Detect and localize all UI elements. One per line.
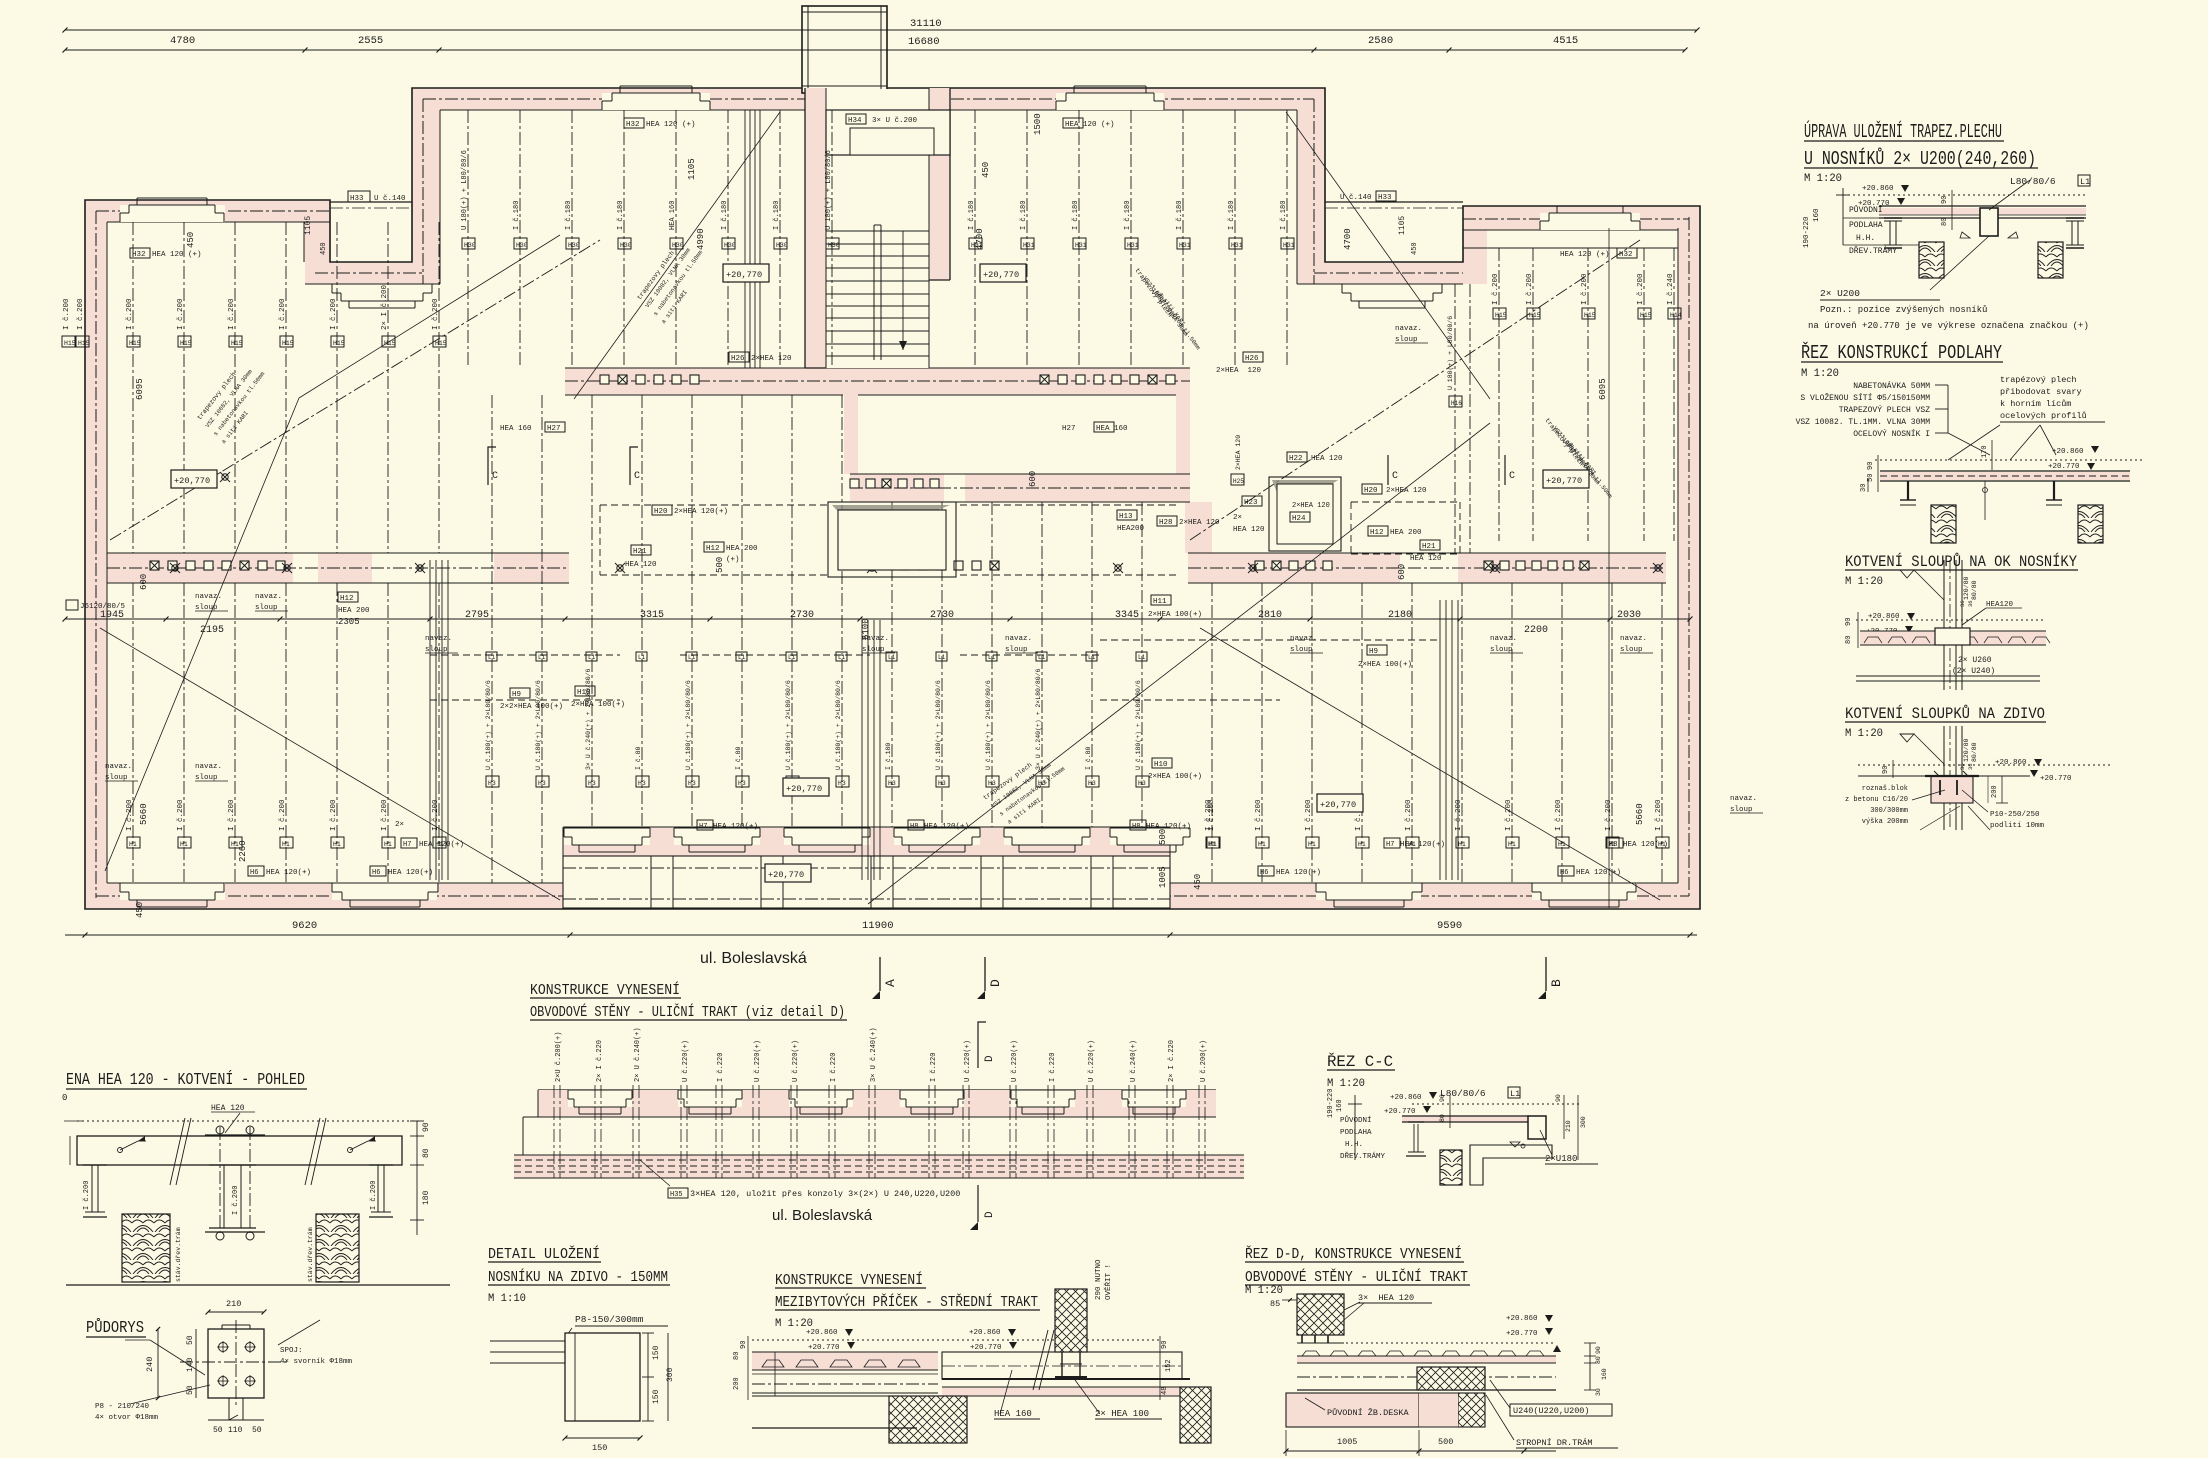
svg-text:ŘEZ C-C: ŘEZ C-C [1327, 1052, 1393, 1071]
svg-text:H6: H6 [372, 869, 380, 877]
svg-text:300/300mm: 300/300mm [1870, 807, 1908, 815]
window sills bottom [120, 828, 1637, 907]
svg-text:H31: H31 [1231, 242, 1243, 249]
svg-text:H15: H15 [1640, 312, 1652, 319]
svg-text:450: 450 [320, 242, 328, 255]
svg-text:90: 90 [1882, 766, 1890, 774]
svg-text:+20,770: +20,770 [786, 784, 822, 794]
svg-text:U240(U220,U200): U240(U220,U200) [1513, 1406, 1590, 1416]
svg-text:H33: H33 [1378, 194, 1392, 202]
svg-text:90: 90 [1845, 618, 1853, 626]
svg-text:H1: H1 [129, 841, 137, 848]
svg-text:HEA 120(+): HEA 120(+) [419, 841, 464, 849]
svg-text:80: 80 [1595, 1356, 1602, 1364]
svg-text:HEA 160: HEA 160 [669, 201, 677, 230]
diagonal reference lines [100, 112, 1660, 904]
svg-text:90: 90 [1161, 1341, 1169, 1349]
svg-text:H31: H31 [1023, 242, 1035, 249]
svg-text:2×HEA 120: 2×HEA 120 [1235, 435, 1242, 470]
svg-text:180: 180 [422, 1190, 431, 1205]
svg-text:HEA 120(+): HEA 120(+) [1623, 841, 1668, 849]
svg-text:L1: L1 [1138, 654, 1146, 661]
svg-text:2555: 2555 [358, 35, 383, 47]
svg-text:Pozn.: pozice zvýšených nosník: Pozn.: pozice zvýšených nosníků [1820, 305, 1987, 315]
svg-text:2×: 2× [395, 821, 404, 829]
svg-text:U č.220(+): U č.220(+) [1011, 1040, 1019, 1082]
svg-text:+20.860: +20.860 [2052, 448, 2084, 456]
svg-text:H15: H15 [64, 340, 76, 347]
detail 1 drawing [1803, 175, 2090, 331]
svg-text:I č.180: I č.180 [1228, 201, 1236, 230]
svg-text:90: 90 [1595, 1346, 1602, 1354]
joist lines left wing upper room [133, 222, 439, 553]
svg-text:H15: H15 [333, 340, 345, 347]
svg-text:H31: H31 [1179, 242, 1191, 249]
svg-text:HEA 120(+): HEA 120(+) [924, 823, 969, 831]
svg-text:2730: 2730 [930, 610, 954, 621]
svg-text:I č.200: I č.200 [1505, 799, 1513, 831]
svg-text:+20.860: +20.860 [969, 1329, 1001, 1337]
svg-text:C: C [634, 471, 640, 482]
REZ D-D title [1245, 1245, 1470, 1297]
svg-text:50: 50 [252, 1426, 262, 1435]
joist lines central-left room [468, 110, 832, 368]
svg-text:I č.180: I č.180 [968, 201, 976, 230]
svg-text:500: 500 [1158, 829, 1168, 845]
svg-text:(+): (+) [726, 556, 740, 564]
svg-text:9620: 9620 [292, 920, 317, 932]
svg-text:H30: H30 [464, 242, 476, 249]
bottom dimension line [65, 920, 1697, 938]
svg-text:L80/80/6: L80/80/6 [2010, 176, 2056, 187]
svg-text:STROPNÍ DR.TRÁM: STROPNÍ DR.TRÁM [1516, 1437, 1593, 1448]
svg-text:H30: H30 [516, 242, 528, 249]
svg-text:J6120/80/5: J6120/80/5 [80, 603, 126, 611]
svg-text:1105: 1105 [304, 216, 313, 235]
detail: beam elevation [64, 1104, 420, 1165]
svg-text:200: 200 [1991, 785, 1999, 798]
svg-text:+20.770: +20.770 [1384, 1108, 1416, 1116]
svg-text:3× U č.240(+) + 2×L80/80/6: 3× U č.240(+) + 2×L80/80/6 [1035, 668, 1042, 770]
svg-text:H1: H1 [1508, 841, 1516, 848]
svg-text:80: 80 [1439, 1114, 1446, 1122]
svg-text:navaz.: navaz. [425, 635, 452, 643]
joist labels left wing lower [126, 799, 446, 848]
svg-text:2×HEA 120: 2×HEA 120 [1386, 487, 1427, 495]
svg-text:H11: H11 [1153, 598, 1167, 606]
REZ D-D drawing [1270, 1293, 1618, 1456]
svg-text:H12: H12 [1370, 529, 1384, 537]
svg-text:HEA 160: HEA 160 [500, 425, 532, 433]
svg-text:80: 80 [1941, 218, 1949, 226]
H24 right room box [1269, 477, 1341, 551]
svg-text:H3: H3 [888, 780, 896, 787]
svg-text:2×HEA 120: 2×HEA 120 [751, 355, 792, 363]
svg-text:U č.180(+) + 2×L80/80/6: U č.180(+) + 2×L80/80/6 [935, 680, 942, 770]
svg-text:ocelových profilů: ocelových profilů [2000, 411, 2087, 421]
svg-text:H25: H25 [1233, 478, 1244, 485]
svg-text:D: D [984, 1211, 996, 1218]
right dims of beam detail [410, 1121, 431, 1235]
svg-text:I č.180: I č.180 [1072, 201, 1080, 230]
svg-text:4990: 4990 [696, 228, 706, 250]
svg-text:navaz.: navaz. [255, 593, 282, 601]
svg-text:ul. Boleslavská: ul. Boleslavská [772, 1207, 873, 1224]
svg-text:VSZ 10082. TL.1MM. VLNA 30MM: VSZ 10082. TL.1MM. VLNA 30MM [1796, 418, 1931, 427]
svg-text:L1: L1 [888, 654, 896, 661]
svg-text:110: 110 [228, 1426, 243, 1435]
svg-text:KOTVENÍ SLOUPKŮ NA ZDIVO: KOTVENÍ SLOUPKŮ NA ZDIVO [1845, 704, 2045, 723]
svg-text:HEA 200: HEA 200 [1390, 529, 1422, 537]
svg-text:PŮVODNÍ: PŮVODNÍ [1849, 205, 1883, 215]
svg-text:H21: H21 [1422, 543, 1436, 551]
svg-text:C: C [492, 471, 498, 482]
svg-text:H8: H8 [1132, 823, 1140, 831]
svg-text:H15: H15 [435, 340, 447, 347]
svg-text:+20.770: +20.770 [808, 1344, 840, 1352]
svg-text:2×U č.200(+): 2×U č.200(+) [555, 1032, 563, 1082]
REZ C-C drawing [1327, 1087, 1598, 1185]
svg-text:ENA HEA 120 - KOTVENÍ - POHLED: ENA HEA 120 - KOTVENÍ - POHLED [66, 1070, 305, 1090]
svg-text:3× HEA 120: 3× HEA 120 [1358, 1293, 1414, 1303]
svg-text:16680: 16680 [908, 36, 940, 48]
svg-text:1005: 1005 [1337, 1437, 1357, 1447]
svg-text:D: D [984, 1055, 996, 1062]
svg-text:H22: H22 [1289, 455, 1303, 463]
section marker A [879, 957, 881, 991]
svg-text:4515: 4515 [1553, 35, 1578, 47]
svg-text:30: 30 [1595, 1388, 1602, 1396]
svg-text:50: 50 [213, 1426, 223, 1435]
svg-text:M 1:20: M 1:20 [1845, 576, 1883, 588]
svg-text:2730: 2730 [790, 610, 814, 621]
svg-text:H27: H27 [1062, 425, 1076, 433]
svg-text:2305: 2305 [338, 617, 360, 627]
svg-text:HEA 120(+): HEA 120(+) [388, 869, 433, 877]
detail 4 drawing [1845, 726, 2110, 830]
I-beam I c.200 left [83, 1165, 107, 1217]
joist lines right wing upper room [1455, 228, 1674, 908]
top dimension line 31110 [63, 18, 1700, 33]
svg-text:0: 0 [62, 1093, 67, 1103]
corridor band outlines [107, 368, 1666, 583]
svg-text:HEA 120 (+): HEA 120 (+) [1560, 251, 1610, 259]
joist labels left wing upper [62, 284, 447, 347]
joist labels central lower (upper row, L80 labels) [485, 652, 1149, 787]
svg-text:2200: 2200 [1524, 625, 1548, 636]
svg-text:H31: H31 [1127, 242, 1139, 249]
svg-text:OVĚŘIT !: OVĚŘIT ! [1104, 1264, 1113, 1300]
svg-text:H21: H21 [633, 548, 647, 556]
svg-text:U č.220(+): U č.220(+) [754, 1040, 762, 1082]
svg-text:U č.180(+) + 2×L80/80/6: U č.180(+) + 2×L80/80/6 [835, 680, 842, 770]
H24 right room gray triangle [1272, 480, 1338, 515]
wood posts under beam [122, 1214, 359, 1282]
DETAIL ULOZENI drawing [490, 1314, 675, 1453]
svg-text:I č.200: I č.200 [1526, 273, 1534, 305]
svg-text:90: 90 [422, 1122, 431, 1132]
svg-text:H13: H13 [1119, 513, 1133, 521]
svg-text:80/80: 80/80 [1971, 742, 1978, 762]
svg-text:I č.200: I č.200 [228, 298, 236, 330]
svg-text:stáv.dřev.trám: stáv.dřev.trám [175, 1227, 182, 1282]
svg-text:I č.200: I č.200 [1655, 799, 1663, 831]
svg-text:HEA 120 (+): HEA 120 (+) [152, 251, 202, 259]
svg-text:D: D [988, 979, 1003, 987]
joist lines right wing lower [1212, 583, 1662, 883]
svg-text:H20: H20 [1364, 487, 1378, 495]
ground line [66, 1284, 450, 1286]
detail 4 title: KOTVENI SLOUPKU NA ZDIVO [1845, 704, 2046, 740]
svg-text:4780: 4780 [170, 35, 195, 47]
svg-text:+20.770: +20.770 [970, 1344, 1002, 1352]
DETAIL ULOZENI NOSNIKU title [488, 1245, 670, 1305]
svg-text:H30: H30 [776, 242, 788, 249]
svg-text:H3: H3 [1088, 780, 1096, 787]
svg-text:H32: H32 [132, 251, 146, 259]
svg-text:z betonu C16/20: z betonu C16/20 [1845, 796, 1908, 804]
svg-text:120/80: 120/80 [1963, 576, 1970, 600]
svg-text:H1: H1 [1458, 841, 1466, 848]
svg-text:I č.220: I č.220 [830, 1053, 838, 1082]
svg-text:U č.220(+): U č.220(+) [964, 1040, 972, 1082]
svg-text:I č.200: I č.200 [1255, 799, 1263, 831]
svg-text:190-220: 190-220 [1803, 216, 1811, 248]
svg-text:36: 36 [1959, 763, 1966, 770]
svg-text:6095: 6095 [1598, 378, 1608, 400]
svg-text:2×: 2× [1233, 514, 1242, 522]
svg-text:trapézový plech: trapézový plech [2000, 375, 2077, 385]
H24 gray triangle [832, 505, 950, 540]
svg-text:1105: 1105 [687, 158, 697, 180]
svg-text:I č.200: I č.200 [1555, 799, 1563, 831]
svg-text:1945: 1945 [100, 610, 124, 621]
svg-text:navaz.: navaz. [1005, 635, 1032, 643]
lintel U c.140 over right notch [1325, 202, 1463, 208]
svg-text:TRAPEZOVÝ PLECH VSZ: TRAPEZOVÝ PLECH VSZ [1839, 406, 1930, 415]
svg-text:U 180(+) + L80/80/6: U 180(+) + L80/80/6 [461, 150, 469, 230]
joist labels central-right [968, 201, 1295, 249]
svg-text:H15: H15 [1584, 312, 1596, 319]
svg-text:80: 80 [422, 1148, 431, 1158]
svg-text:H30: H30 [828, 242, 840, 249]
svg-text:HEA 120: HEA 120 [1410, 555, 1442, 563]
svg-text:H12: H12 [706, 545, 720, 553]
svg-text:2×HEA 120(+): 2×HEA 120(+) [674, 508, 728, 516]
svg-text:36: 36 [1967, 600, 1974, 607]
svg-text:L1: L1 [1510, 1089, 1520, 1099]
svg-text:+20,770: +20,770 [983, 270, 1019, 280]
svg-text:+20.860: +20.860 [806, 1329, 838, 1337]
svg-text:450: 450 [1411, 242, 1419, 255]
svg-text:36: 36 [1967, 763, 1974, 770]
svg-text:290 NUTNO: 290 NUTNO [1095, 1259, 1103, 1300]
svg-text:HEA 120(+): HEA 120(+) [1400, 841, 1445, 849]
svg-text:I č.180: I č.180 [773, 201, 781, 230]
svg-text:1005: 1005 [1158, 866, 1168, 888]
svg-text:170: 170 [1981, 445, 1989, 458]
svg-text:I č.200: I č.200 [177, 298, 185, 330]
MEZIBYTOVYCH drawing [733, 1259, 1211, 1443]
svg-text:450: 450 [981, 162, 991, 178]
svg-text:H20: H20 [654, 508, 668, 516]
svg-text:HEA200: HEA200 [1117, 525, 1145, 533]
svg-text:600: 600 [1028, 471, 1038, 487]
svg-text:80: 80 [733, 1352, 741, 1360]
svg-text:PŮDORYS: PŮDORYS [86, 1318, 144, 1338]
svg-text:H15: H15 [231, 340, 243, 347]
svg-text:L1: L1 [638, 654, 646, 661]
svg-text:H28: H28 [1159, 519, 1173, 527]
svg-text:M 1:20: M 1:20 [1801, 368, 1839, 380]
svg-text:I č.80: I č.80 [635, 746, 642, 770]
svg-text:I č.200: I č.200 [232, 1186, 240, 1215]
svg-text:I č.200: I č.200 [228, 799, 236, 831]
svg-text:2× I č.200: 2× I č.200 [381, 284, 389, 330]
svg-text:HEA 120 (+): HEA 120 (+) [1065, 121, 1115, 129]
svg-text:H7: H7 [699, 823, 707, 831]
svg-text:U č.180(+) + 2×L80/80/6: U č.180(+) + 2×L80/80/6 [535, 680, 542, 770]
svg-text:90: 90 [1867, 462, 1875, 470]
svg-text:5660: 5660 [139, 803, 149, 825]
svg-text:I č.200: I č.200 [279, 298, 287, 330]
svg-text:navaz.: navaz. [105, 763, 132, 771]
svg-text:H3: H3 [1138, 780, 1146, 787]
svg-text:2195: 2195 [200, 625, 224, 636]
svg-text:HEA 120: HEA 120 [1233, 526, 1265, 534]
svg-text:podlití 10mm: podlití 10mm [1990, 822, 2045, 830]
svg-text:I č.200: I č.200 [279, 799, 287, 831]
svg-text:U 180(+) + L80/80/6: U 180(+) + L80/80/6 [825, 150, 833, 230]
svg-text:200: 200 [733, 1377, 741, 1390]
window sills top central [602, 86, 1164, 110]
svg-text:H15: H15 [78, 340, 90, 347]
svg-text:90: 90 [1555, 1094, 1562, 1102]
svg-text:HEA 120 (+): HEA 120 (+) [646, 121, 696, 129]
svg-text:2×U180: 2×U180 [1545, 1154, 1577, 1164]
svg-text:4700: 4700 [1343, 228, 1353, 250]
svg-text:HEA 120(+): HEA 120(+) [1146, 823, 1191, 831]
svg-text:36: 36 [1959, 600, 1966, 607]
svg-text:2×HEA 120: 2×HEA 120 [1179, 519, 1220, 527]
svg-text:2× U260: 2× U260 [1958, 656, 1992, 665]
svg-text:1105: 1105 [1398, 216, 1407, 235]
svg-text:190-220: 190-220 [1327, 1089, 1335, 1118]
lintel H34 band below tower [822, 93, 938, 110]
svg-text:H27: H27 [547, 425, 561, 433]
svg-text:+20,770: +20,770 [726, 270, 762, 280]
svg-text:M 1:20: M 1:20 [1327, 1078, 1365, 1090]
svg-text:+20.860: +20.860 [1862, 185, 1894, 193]
section marker D [984, 957, 986, 991]
svg-text:450: 450 [1193, 874, 1203, 890]
svg-text:+20,770: +20,770 [768, 870, 804, 880]
svg-text:H26: H26 [1245, 355, 1259, 363]
svg-text:U č.220(+): U č.220(+) [792, 1040, 800, 1082]
svg-text:H3: H3 [688, 780, 696, 787]
joist lines big central lower area [492, 395, 1142, 883]
svg-text:I č.200: I č.200 [177, 799, 185, 831]
svg-text:150: 150 [592, 1443, 607, 1453]
svg-text:HEA 160: HEA 160 [1096, 425, 1128, 433]
svg-text:I č.200: I č.200 [330, 298, 338, 330]
svg-text:H3: H3 [838, 780, 846, 787]
svg-text:U č.200(+): U č.200(+) [1200, 1040, 1208, 1082]
svg-text:OCELOVÝ NOSNÍK I: OCELOVÝ NOSNÍK I [1853, 430, 1930, 439]
svg-text:2580: 2580 [1368, 35, 1393, 47]
svg-text:H26: H26 [731, 355, 745, 363]
svg-text:I č.180: I č.180 [1020, 201, 1028, 230]
svg-text:H.H.: H.H. [1345, 1141, 1363, 1149]
svg-text:U č.180(+) + 2×L80/80/6: U č.180(+) + 2×L80/80/6 [485, 680, 492, 770]
svg-text:500: 500 [1438, 1437, 1453, 1447]
svg-text:S VLOŽENOU SÍTÍ Φ5/150150MM: S VLOŽENOU SÍTÍ Φ5/150150MM [1800, 394, 1930, 403]
svg-text:48: 48 [1161, 1387, 1169, 1395]
section marker B [1545, 957, 1547, 991]
svg-text:přibodovat svary: přibodovat svary [2000, 387, 2082, 397]
svg-text:H23: H23 [1244, 499, 1258, 507]
joist lines central-right room [975, 110, 1287, 368]
svg-text:U 180(+) + L80/80/6: U 180(+) + L80/80/6 [1447, 316, 1454, 390]
joist labels right wing upper [1447, 273, 1682, 407]
section C markers in plan [488, 447, 1515, 485]
svg-text:9590: 9590 [1437, 920, 1462, 932]
svg-text:H1: H1 [1358, 841, 1366, 848]
svg-text:5660: 5660 [1635, 803, 1645, 825]
svg-text:U č.180(+) + 2×L80/80/6: U č.180(+) + 2×L80/80/6 [1135, 680, 1142, 770]
svg-text:H1: H1 [1258, 841, 1266, 848]
svg-text:navaz.: navaz. [1620, 635, 1647, 643]
svg-text:I č.220: I č.220 [930, 1053, 938, 1082]
svg-text:2810: 2810 [1258, 610, 1282, 621]
svg-text:6095: 6095 [135, 378, 145, 400]
svg-text:ŘEZ KONSTRUKCÍ PODLAHY: ŘEZ KONSTRUKCÍ PODLAHY [1801, 342, 2002, 364]
svg-text:I č.180: I č.180 [1280, 201, 1288, 230]
svg-text:+20.770: +20.770 [2048, 463, 2080, 471]
svg-text:U č.140: U č.140 [374, 195, 406, 203]
svg-text:KOTVENÍ SLOUPŮ NA OK NOSNÍKY: KOTVENÍ SLOUPŮ NA OK NOSNÍKY [1845, 552, 2077, 571]
svg-text:H35: H35 [670, 1191, 683, 1199]
svg-text:P8-150/300mm: P8-150/300mm [575, 1314, 644, 1325]
svg-text:150: 150 [652, 1389, 661, 1404]
navaz sloup leaders [105, 325, 1763, 814]
svg-text:H31: H31 [1075, 242, 1087, 249]
svg-text:300: 300 [1580, 1116, 1587, 1128]
svg-text:I č.180: I č.180 [721, 201, 729, 230]
svg-text:+20.770: +20.770 [2040, 775, 2072, 783]
svg-text:I č.220: I č.220 [717, 1053, 725, 1082]
svg-text:H1: H1 [333, 841, 341, 848]
svg-text:výška 200mm: výška 200mm [1862, 818, 1908, 826]
H22 H25 labels right [1231, 435, 1343, 485]
break marks [170, 1118, 326, 1185]
svg-text:H1: H1 [1308, 841, 1316, 848]
svg-text:I č.200: I č.200 [83, 1181, 91, 1210]
svg-text:k horním lícům: k horním lícům [2000, 399, 2071, 409]
plan anchor symbols [170, 472, 1663, 573]
svg-text:HEA 120(+): HEA 120(+) [1276, 869, 1321, 877]
svg-text:C: C [1509, 471, 1515, 482]
svg-text:2×2×HEA 100(+): 2×2×HEA 100(+) [500, 703, 563, 711]
svg-text:H3: H3 [588, 780, 596, 787]
svg-text:H30: H30 [724, 242, 736, 249]
svg-text:OBVODOVÉ STĚNY - ULIČNÍ TRAKT: OBVODOVÉ STĚNY - ULIČNÍ TRAKT [1245, 1268, 1468, 1286]
svg-text:I č.200: I č.200 [1605, 799, 1613, 831]
corridor square dots [150, 375, 1589, 570]
svg-text:+20.770: +20.770 [1506, 1330, 1538, 1338]
svg-text:11900: 11900 [862, 920, 894, 932]
svg-text:HEA 200: HEA 200 [338, 607, 370, 615]
